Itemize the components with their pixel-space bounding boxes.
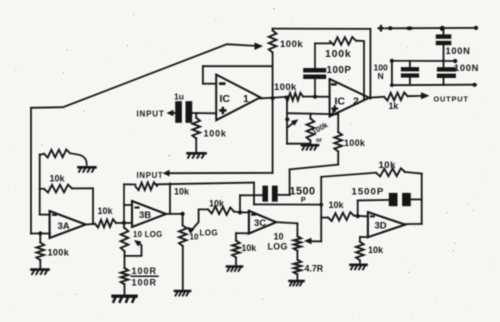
wire lead left of top resistor (40, 154, 44, 155)
label 10k series (98, 206, 114, 216)
svg-text:10k: 10k (379, 160, 397, 171)
svg-text:4.7R: 4.7R (305, 264, 324, 274)
label INPUT lower (137, 171, 164, 180)
node junction box left top (285, 96, 289, 100)
node dot rail end (474, 26, 478, 30)
svg-text:10k: 10k (50, 174, 66, 184)
svg-text:2: 2 (353, 96, 359, 108)
capacitor 100P plate upper (303, 68, 326, 73)
potentiometer 10 LOG 3C output (294, 236, 302, 251)
node junction at 3A plus input (38, 231, 42, 235)
label 100N first (446, 46, 471, 56)
label 100R lower (132, 277, 158, 287)
ground below 3C plus 10k (227, 267, 242, 272)
node dot rail b (406, 26, 413, 30)
svg-text:100k: 100k (280, 39, 303, 50)
svg-text:3D: 3D (375, 221, 387, 232)
label 100k IC1 input (204, 129, 227, 139)
wire cap column upper stub (443, 28, 445, 34)
op-amp 3D (368, 212, 405, 237)
wire T00k loop right drop (356, 41, 364, 99)
plus sign IC2 (331, 105, 338, 112)
resistor 100k right of box (334, 132, 342, 151)
label 10 3B output pot (190, 233, 199, 242)
op-amp 3A (50, 211, 86, 238)
capacitor 1500p plate 2 (272, 186, 278, 202)
resistor 100k below 3A plus (37, 243, 45, 261)
plus sign supply rail (378, 25, 385, 32)
label 3B (139, 210, 151, 221)
wire to 3C minus node (234, 211, 240, 214)
fraction bar under 100R (132, 275, 159, 277)
label 100 of 100N first (374, 63, 388, 73)
op-amp IC2 (330, 79, 370, 116)
wire 100P riser upper (314, 43, 316, 68)
label 10k 3D feedback (379, 160, 397, 171)
arrowhead INPUT upper pointing left (167, 110, 174, 116)
node junction 3B input (122, 221, 126, 225)
svg-text:1: 1 (243, 93, 249, 105)
node dot bottom rail right (472, 83, 476, 87)
wire 10k to ground (235, 257, 237, 265)
ground below box pot (302, 145, 318, 150)
wire IC1 feedback to minus (203, 83, 216, 85)
capacitor 100P plate lower (303, 75, 326, 80)
wire IC2 output (369, 96, 384, 99)
label LOG 3B output pot (200, 229, 219, 238)
wire pot column to feedback tee (272, 53, 274, 67)
resistor unlabeled to ground above 3A (44, 150, 70, 158)
label 100k series IC1-IC2 (274, 82, 297, 93)
wire lower input line (169, 172, 273, 174)
wire 3D plus stub (360, 236, 368, 238)
minus sign 3B (135, 207, 140, 209)
arrowhead wiper pointing at 100k pot (254, 43, 263, 51)
label 10 LOG 3B input pot (133, 230, 163, 239)
wire pot wiper feed diagonal from left rail to 100k pot (31, 44, 255, 108)
node dot bottom rail left (390, 83, 394, 87)
label lin in box (316, 138, 323, 144)
svg-text:1500P: 1500P (352, 187, 385, 198)
label 10k 3B feedback (174, 187, 190, 197)
label 10k 3A feedback (50, 174, 66, 184)
wire 3B minus riser (123, 184, 125, 223)
wire 100P riser lower (314, 79, 316, 97)
capacitor 1u plate 1 (175, 101, 182, 123)
wire input to capacitor (174, 112, 176, 114)
ground below 3B output pot (175, 291, 190, 296)
wire box pot bottom stub (309, 141, 311, 144)
wire cap column mid (443, 45, 445, 67)
wire 3B pot to ground (182, 246, 184, 290)
node wiper pivot in box (285, 117, 289, 121)
wire box left side (286, 98, 288, 144)
svg-text:3A: 3A (58, 221, 70, 232)
svg-text:1u: 1u (174, 92, 184, 102)
potentiometer 10 LOG 3C output upper lead (296, 223, 298, 236)
svg-text:OUTPUT: OUTPUT (434, 95, 469, 104)
minus sign 3D (370, 215, 375, 217)
wire capacitor to IC1 plus (192, 112, 216, 114)
wire cap column lower stub (443, 78, 445, 85)
wire pot to 4R7 (296, 251, 298, 260)
plus sign IC1 (219, 107, 226, 114)
resistor 10k 3D plus (356, 242, 364, 261)
wire pot column down to input line (272, 66, 274, 173)
svg-text:100R: 100R (132, 266, 158, 276)
label 100k slanted in box (310, 120, 330, 136)
svg-text:10k: 10k (174, 187, 190, 197)
node dot mid rail left (390, 59, 394, 63)
label 10k series to 3C (209, 199, 225, 209)
node dot rail a (388, 26, 392, 30)
svg-text:100P: 100P (327, 65, 352, 76)
node dot rail c (440, 26, 445, 31)
wire line A to 100k below IC2 (290, 165, 339, 170)
wire 3C cap riser (239, 195, 241, 212)
op-amp IC1 (216, 75, 260, 121)
wire IC1 feedback top (203, 65, 273, 67)
svg-text:INPUT: INPUT (137, 171, 164, 180)
capacitor 1500p plate 1 (262, 186, 268, 202)
ground below IC1 input 100k (188, 153, 206, 158)
wire 3A feedback left stub (40, 188, 44, 190)
wire left join column (391, 61, 393, 85)
svg-text:10: 10 (190, 233, 199, 242)
label 1k (389, 101, 399, 111)
wire 3C plus stub (236, 232, 249, 234)
wire 3A output (86, 223, 95, 226)
capacitor 100N third plate b (401, 73, 419, 77)
wire left rail vertical to 3A non-inverting input (30, 108, 32, 234)
wire 3D feedback drop to output (421, 174, 423, 224)
wire 3A minus column (39, 155, 41, 215)
wire 3C output (276, 222, 297, 223)
wire 3C cap right lead (278, 194, 290, 196)
resistor 10k series 3A to 3B (95, 219, 116, 227)
label IC of IC2 (335, 96, 346, 108)
node junction 3B output (181, 212, 185, 216)
wire box top edge (287, 113, 338, 114)
wire 100k to IC2 minus (303, 96, 330, 98)
wire IC2 plus drop (332, 109, 334, 114)
wire 100k to ground (195, 138, 197, 152)
wire IC1 output to 100k resistor (260, 97, 285, 99)
wire 3D cap right lead (411, 198, 422, 200)
wire 3C minus stub (240, 211, 249, 213)
wire 3A plus input (31, 233, 50, 235)
svg-text:100k: 100k (274, 82, 297, 93)
resistor 1k output (384, 93, 408, 101)
svg-text:100N: 100N (454, 63, 479, 73)
label 10k 3C plus (242, 243, 257, 253)
wire bottom rail (391, 84, 476, 87)
label 10k series to 3D (329, 200, 345, 210)
wire 3C cap left lead (240, 194, 262, 196)
wiper wire of 3B output pot to 3C (192, 209, 209, 230)
svg-text:10 LOG: 10 LOG (133, 230, 163, 239)
wire 4R7 to ground (296, 274, 298, 279)
svg-text:10k: 10k (329, 200, 345, 210)
label 1 of IC1 (243, 93, 249, 105)
wire 100k to ground (39, 260, 41, 268)
resistor 10k feedback of 3B (136, 182, 158, 190)
wire third cap column lower (409, 78, 411, 85)
wire 3D cap left lead (358, 199, 389, 202)
label OUTPUT (434, 95, 469, 104)
wire 3B output pot top (182, 214, 184, 226)
wire riser from cap to line A (289, 169, 291, 195)
svg-text:IC: IC (220, 93, 231, 105)
label LOG of 3C pot (268, 242, 288, 252)
svg-text:IC: IC (335, 96, 346, 108)
wire 3D plus drop (359, 237, 361, 242)
resistor 10k 3C plus (232, 241, 240, 258)
node junction 100P riser (313, 95, 317, 99)
label 10 of 3C pot (274, 232, 284, 242)
wire 3A feedback right to output (72, 188, 93, 224)
wire 3B loop drop to lower loop (253, 183, 255, 205)
wire 3A minus stub (40, 214, 50, 216)
wire IC1 feedback left drop (202, 66, 204, 84)
wire supply rail top (386, 27, 478, 29)
wire big loop top rail (273, 28, 371, 30)
capacitor 100N third plate a (401, 67, 419, 71)
svg-text:10k: 10k (242, 243, 257, 253)
minus sign IC2 (331, 83, 337, 85)
capacitor 1500P 3D plate 1 (389, 193, 398, 206)
wire 10k 3D to ground (359, 260, 361, 263)
label 3A (58, 221, 70, 232)
label 3D (375, 221, 387, 232)
label 10k 3D plus (368, 245, 384, 255)
ground below 100R chain (113, 296, 136, 302)
capacitor 100N second plate b (437, 74, 456, 78)
label p of 3C cap (301, 195, 306, 204)
resistor 100k IC1 input bias (192, 118, 200, 139)
wire 3B feedback long top to 3C loop (157, 183, 254, 185)
capacitor 1u plate 2 (186, 101, 193, 123)
ground below 3D plus 10k (351, 265, 367, 270)
svg-text:100k: 100k (344, 138, 366, 148)
wire 3B output (166, 213, 183, 215)
wire 3D output (405, 223, 422, 225)
wire big loop right drop (369, 29, 371, 99)
svg-text:100k: 100k (204, 129, 227, 139)
arrowhead output (421, 92, 430, 99)
wire 3B feedback top left (124, 183, 136, 185)
svg-text:1k: 1k (389, 101, 399, 111)
wire third cap column upper (409, 61, 411, 67)
potentiometer 100k inside box (307, 118, 315, 140)
wire cap node to 100k (195, 113, 197, 118)
capacitor 1500P 3D plate 2 (402, 193, 411, 206)
potentiometer 10 LOG at 3B output (179, 226, 187, 247)
op-amp 3B (132, 201, 166, 227)
svg-text:100N: 100N (446, 46, 471, 56)
wire 3B plus stub (124, 222, 132, 224)
capacitor 100N first plate a (436, 34, 452, 38)
svg-text:LOG: LOG (268, 242, 288, 252)
wire 100R to ground (124, 284, 126, 295)
wire hook to 3C pot wiper (308, 240, 321, 242)
minus sign IC1 (219, 82, 226, 85)
wiper arrowhead 3B input pot (134, 240, 142, 247)
node junction 3D cap riser (356, 214, 360, 218)
arrowhead INPUT lower pointing left (163, 170, 170, 177)
wire node to pot (123, 223, 125, 228)
wiper loop of 3B input pot (125, 242, 142, 256)
svg-text:10k: 10k (98, 206, 114, 216)
wire lower loop horizontal (254, 203, 321, 205)
wire series to 3D minus (354, 215, 368, 218)
wire 3C plus drop (235, 233, 237, 240)
node junction IC1 output (271, 96, 275, 100)
svg-text:3B: 3B (139, 210, 151, 221)
svg-text:3C: 3C (254, 218, 266, 229)
label 100N second (454, 63, 479, 73)
resistor 4.7R (294, 260, 302, 275)
resistor 100R (121, 268, 129, 284)
svg-text:or: or (316, 138, 323, 144)
wire 100k to node (39, 233, 41, 242)
wire pot to 100R (124, 251, 126, 268)
label 100k IC2 feedback (325, 48, 352, 60)
wire 3D feedback right (405, 172, 422, 174)
wire 3B feedback drop to output (169, 184, 171, 214)
wire 3D input column vertical (320, 177, 322, 242)
svg-text:N: N (378, 71, 384, 81)
label 3C (254, 218, 266, 229)
capacitor 100N second plate a (437, 67, 456, 71)
svg-text:10k: 10k (368, 245, 384, 255)
wire 3D feedback line left (321, 173, 376, 177)
potentiometer 100k column stub top (272, 29, 274, 31)
node dot mid rail right (453, 59, 457, 63)
resistor 10k feedback of 3A (44, 185, 72, 193)
capacitor 100N first plate b (436, 41, 452, 45)
svg-text:LOG: LOG (200, 229, 219, 238)
wire to 3B node (116, 222, 124, 224)
potentiometer 100k vertical (269, 31, 277, 53)
minus sign 3C (251, 214, 256, 216)
wire 1k to output arrow (408, 95, 421, 97)
label 1500P 3D (352, 187, 385, 198)
label N of 100N first (378, 71, 384, 81)
wiper arrow in box (287, 121, 295, 127)
label 100k 3A (48, 248, 70, 258)
svg-text:100R: 100R (132, 277, 158, 287)
node junction lower loop (319, 203, 323, 207)
wire 3D cap riser (357, 200, 359, 216)
label INPUT upper (137, 110, 165, 119)
label 100P (327, 65, 352, 76)
label 2 of IC2 (353, 96, 359, 108)
wire lead curving to ground from top resistor (70, 153, 87, 166)
potentiometer 10 LOG below 3B input node (121, 228, 129, 252)
label 4.7R (305, 264, 324, 274)
label 100k right of box (344, 138, 366, 148)
arrowhead at 3C pot wiper (304, 238, 312, 245)
wire box bottom edge (287, 143, 310, 145)
wire 100k top stub (337, 114, 339, 132)
svg-text:P: P (301, 195, 306, 204)
resistor 10k series to 3D (328, 212, 354, 221)
svg-text:INPUT: INPUT (137, 110, 165, 119)
ground below 3A top resistor (79, 167, 96, 172)
svg-text:100k: 100k (48, 248, 70, 258)
ground below 3A 100k (32, 270, 49, 275)
label 1u (174, 92, 184, 102)
wire mid rail (392, 60, 455, 62)
wire series to 3D (321, 217, 328, 219)
resistor 100k IC2 feedback (330, 37, 356, 45)
label 100k pot (280, 39, 303, 50)
node junction 3C minus (238, 210, 242, 214)
label IC of IC1 (220, 93, 231, 105)
wiper arrowhead in box (291, 119, 298, 126)
label 1500 of 3C cap (290, 185, 316, 197)
resistor 10k 3D feedback (376, 168, 405, 176)
svg-text:100k: 100k (325, 48, 352, 60)
wiper arrow of 3B output pot (187, 227, 195, 234)
resistor 10k series to 3C (208, 206, 234, 215)
wire box pot top stub (309, 114, 311, 119)
label 100R upper (132, 266, 158, 276)
op-amp 3C (249, 211, 276, 234)
resistor 100k IC1 to IC2 (285, 93, 303, 101)
svg-text:10k: 10k (209, 199, 225, 209)
wire 3B minus stub (124, 204, 132, 206)
ground below 4R7 (290, 281, 304, 286)
minus sign 3A (52, 214, 57, 216)
svg-text:10: 10 (274, 232, 284, 242)
wire 100k bottom to line A (337, 151, 339, 164)
wire T00k loop left (315, 42, 330, 44)
